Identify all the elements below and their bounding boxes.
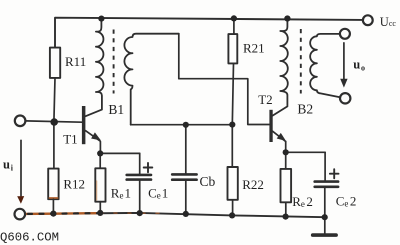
node rail R22 (229, 212, 235, 218)
resistor R21 (228, 18, 237, 124)
node rail Ce2 (322, 214, 328, 220)
transformer B2 core (300, 29, 302, 94)
svg-text:ui: ui (3, 157, 14, 172)
svg-text:uo: uo (353, 57, 365, 72)
svg-text:Cb: Cb (200, 174, 216, 189)
arrow u_i (17, 140, 24, 204)
wire T2 emitter node to Ce2 (286, 151, 325, 153)
svg-text:Ce1: Ce1 (148, 185, 168, 200)
resistor R22 (228, 125, 238, 216)
wire B1 secondary top to T2 base (179, 34, 270, 125)
node top rail B2 (284, 15, 290, 21)
resistor R12 (48, 122, 58, 214)
svg-text:R21: R21 (243, 40, 265, 55)
node rail Re2 (283, 214, 289, 220)
resistor Re2 (281, 152, 292, 216)
transformer B1 primary winding + T1 collector (86, 19, 104, 117)
svg-text:T1: T1 (63, 132, 77, 147)
capacitor Ce1 (127, 153, 153, 213)
transformer B2 primary winding + T2 collector (273, 19, 288, 116)
wire B1 secondary bottom to R21/R22 junction (131, 124, 233, 126)
transistor T2 (269, 110, 286, 153)
node top rail R21 (231, 15, 237, 21)
terminal Ucc (363, 15, 373, 25)
transformer B1 secondary winding (124, 34, 178, 125)
wire input to base node (25, 121, 82, 122)
node rail Ce1 (137, 210, 143, 216)
transistor T1 (82, 106, 101, 153)
node base divider T1 (50, 118, 58, 126)
svg-text:T2: T2 (258, 92, 272, 107)
svg-text:R11: R11 (65, 54, 86, 69)
wire T1 emitter node to Ce1 (100, 152, 140, 154)
wire bottom rail orange tint (26, 212, 98, 215)
ground (313, 233, 336, 237)
resistor R11 (50, 48, 60, 122)
terminal output bottom (340, 93, 350, 103)
node rail R12 (50, 211, 56, 217)
svg-text:Ce2: Ce2 (336, 193, 357, 208)
transformer B1 core (113, 30, 115, 94)
arrow u_o (340, 43, 347, 88)
node top rail B1 (98, 16, 104, 22)
capacitor Cb (172, 125, 196, 214)
node T1 emitter (97, 150, 103, 156)
svg-text:Ucc: Ucc (380, 15, 397, 29)
terminal input bottom (14, 209, 25, 220)
svg-text:B2: B2 (297, 101, 313, 116)
svg-text:Re1: Re1 (111, 185, 131, 200)
node rail Cb (183, 211, 189, 217)
node rail Re1 (97, 210, 103, 216)
terminal input top (15, 116, 26, 127)
node R21 R22 junction (229, 122, 235, 128)
svg-text:Re2: Re2 (292, 194, 313, 209)
capacitor Ce2 (315, 152, 339, 233)
wire bottom rail (25, 213, 325, 217)
svg-text:R12: R12 (63, 177, 85, 192)
svg-text:B1: B1 (108, 102, 124, 117)
terminal output top (340, 29, 350, 39)
resistor Re1 (95, 153, 105, 213)
node Cb tap (183, 122, 189, 128)
transformer B2 secondary winding (310, 34, 340, 97)
svg-text:Q606.COM: Q606.COM (0, 231, 59, 245)
svg-text:R22: R22 (242, 177, 264, 192)
wire Vcc top rail (55, 18, 363, 48)
node T2 emitter (283, 149, 289, 155)
